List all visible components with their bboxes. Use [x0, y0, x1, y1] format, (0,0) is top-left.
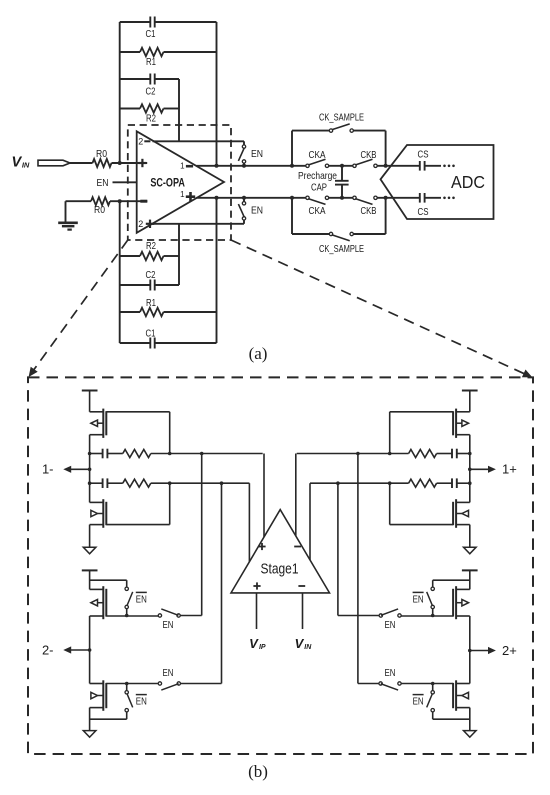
svg-text:EN: EN: [385, 619, 396, 631]
svg-text:CAP: CAP: [311, 181, 327, 193]
svg-text:EN: EN: [251, 205, 263, 217]
svg-text:V: V: [295, 636, 305, 651]
svg-text:EN: EN: [413, 696, 424, 708]
svg-text:ADC: ADC: [451, 172, 485, 192]
svg-text:EN: EN: [136, 593, 147, 605]
svg-text:C1: C1: [146, 28, 156, 40]
svg-text:R1: R1: [146, 56, 156, 68]
svg-text:R2: R2: [146, 112, 156, 124]
svg-text:EN: EN: [163, 619, 174, 631]
svg-text:EN: EN: [136, 696, 147, 708]
svg-text:EN: EN: [385, 667, 396, 679]
svg-text:CK_SAMPLE: CK_SAMPLE: [319, 112, 364, 124]
svg-text:C2: C2: [146, 86, 156, 98]
svg-text:1: 1: [180, 162, 185, 171]
svg-text:IN: IN: [22, 161, 30, 170]
svg-text:C1: C1: [146, 328, 156, 340]
svg-text:CK_SAMPLE: CK_SAMPLE: [319, 243, 364, 255]
svg-text:CKA: CKA: [309, 149, 326, 161]
svg-text:V: V: [11, 155, 22, 171]
svg-text:2: 2: [138, 136, 143, 146]
svg-text:(b): (b): [248, 762, 268, 781]
svg-text:R0: R0: [96, 148, 107, 160]
svg-text:2-: 2-: [42, 642, 54, 657]
svg-text:SC-OPA: SC-OPA: [150, 176, 185, 190]
svg-text:Stage1: Stage1: [261, 561, 299, 578]
svg-text:IN: IN: [304, 644, 312, 651]
svg-text:R1: R1: [146, 297, 156, 309]
svg-text:1-: 1-: [42, 462, 54, 477]
svg-text:EN: EN: [163, 667, 174, 679]
svg-text:EN: EN: [251, 148, 263, 160]
svg-text:V: V: [249, 636, 259, 651]
svg-text:CKB: CKB: [361, 205, 377, 217]
svg-text:R2: R2: [146, 240, 156, 252]
svg-text:1: 1: [180, 190, 185, 199]
svg-text:CS: CS: [418, 149, 429, 161]
svg-text:CS: CS: [418, 206, 429, 218]
svg-text:2: 2: [138, 219, 143, 229]
svg-text:1+: 1+: [502, 462, 517, 477]
svg-text:CKA: CKA: [309, 205, 326, 217]
svg-text:C2: C2: [146, 269, 156, 281]
svg-text:EN: EN: [97, 177, 109, 189]
svg-text:CKB: CKB: [361, 149, 377, 161]
svg-text:IP: IP: [259, 644, 266, 651]
svg-text:2+: 2+: [502, 643, 517, 658]
svg-text:(a): (a): [249, 344, 268, 363]
svg-text:EN: EN: [413, 593, 424, 605]
svg-text:R0: R0: [94, 204, 105, 216]
